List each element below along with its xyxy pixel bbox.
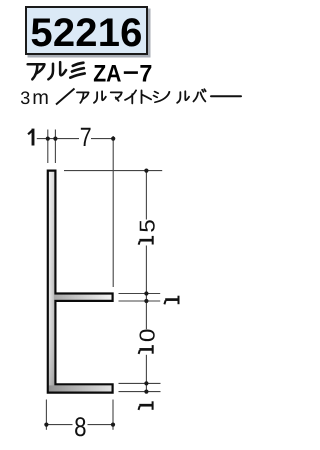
dim label 15 [139,236,153,245]
dimension lines [37,130,162,430]
extension line bottom right [112,400,114,430]
svg-text:3: 3 [20,88,30,108]
bottom dim line left segment [46,424,72,426]
extension line flange end [112,136,114,287]
top dim line left segment [37,138,79,140]
extension line bottom flange top [119,382,161,384]
dimension dots [44,137,148,427]
subtitle katakana アルマイトシルバー [77,89,241,103]
right dim line upper [145,171,147,220]
profile bottom flange fill [49,385,112,391]
extension line middle flange top [119,293,161,295]
svg-text:7: 7 [80,122,92,152]
extension line bottom left [45,400,47,430]
right dim line lower [145,355,147,392]
profile web fill [49,172,54,392]
extension line profile top [64,170,162,172]
svg-text:ZA: ZA [93,60,121,87]
subtitle slash [56,89,75,105]
dim label 10 [139,345,153,354]
dim label 1 middle [164,296,178,305]
title katakana アルミ [28,62,85,79]
extension line middle flange bottom [119,300,161,302]
profile outline [48,171,113,393]
svg-text:8: 8 [74,412,86,442]
svg-text:5: 5 [135,219,159,233]
right dim line middle [145,246,147,330]
svg-text:0: 0 [135,328,159,342]
dim label 1 bottom [139,401,153,410]
profile middle flange fill [54,295,112,300]
svg-text:m: m [32,87,49,109]
top dim line right segment [91,138,113,140]
svg-text:7: 7 [139,60,152,87]
title dash [124,71,138,74]
extension line web left [47,130,49,164]
bottom dim line right segment [88,424,114,426]
dim label 1 top [28,129,33,146]
product code box 52216 [25,6,148,55]
extension line bottom flange bottom [119,391,161,393]
extension line web right [54,130,56,164]
